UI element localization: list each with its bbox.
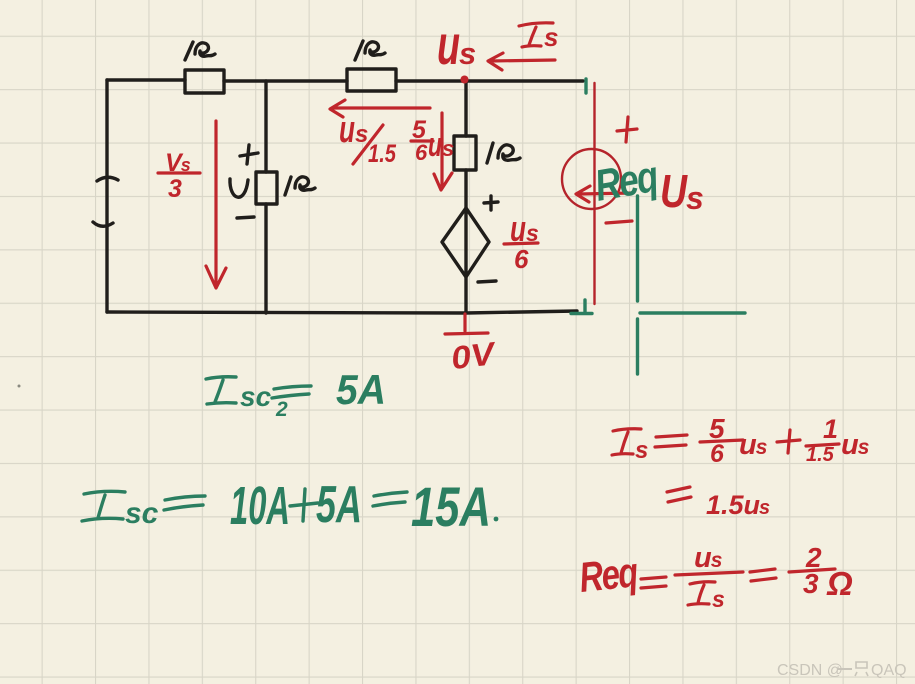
stray dot left margin [18,385,21,388]
equation Is = 5/6 us + 1/1.5 us [612,413,869,468]
svg-text:6: 6 [514,244,529,274]
svg-text:s: s [459,36,476,71]
arrow down current 5/6us [434,113,452,190]
svg-text:Req: Req [577,548,640,601]
polarity plus red [617,117,637,142]
svg-text:5A: 5A [336,366,386,413]
wire top (R1 to middle junction to R2) [224,79,347,82]
label 5/6 us coefficient [411,116,454,165]
label R2 value 1ohm [355,41,385,60]
resistor R1 box [185,70,224,93]
svg-text:Ω: Ω [826,565,853,602]
wire bottom [107,311,577,313]
wire middle branch upper [264,81,267,172]
polarity plus of dependent source [484,196,498,210]
ground lead red [463,314,466,331]
node Us dot [461,76,469,84]
svg-text:U: U [660,165,688,217]
svg-text:1.5: 1.5 [806,444,835,466]
ground bar red [445,333,488,334]
green measure line vertical lower [636,319,639,374]
svg-text:10A: 10A [230,476,290,536]
svg-text:u: u [437,13,460,76]
current label Is [519,23,553,47]
wire middle branch lower [264,204,267,313]
label Us/6 of dependent source [504,208,539,274]
polarity plus of U [240,145,258,164]
wire top (R2 to node Us and right end) [396,79,583,82]
green tick bottom right terminal [571,300,592,314]
resistor R4 box (vertical) [454,136,476,170]
equation Isc2 = 5A [206,366,386,421]
svg-text:3: 3 [168,175,182,203]
svg-text:u: u [339,109,355,151]
svg-text:1.5: 1.5 [368,140,397,168]
svg-text:5A: 5A [316,476,362,534]
svg-text:s: s [686,180,704,216]
svg-text:s: s [635,437,648,464]
green measure line horizontal [640,311,745,314]
equation = 1.5us [667,487,770,520]
svg-text:6: 6 [415,140,428,165]
label R3 value 1ohm [285,177,315,195]
label R1 value 1ohm [185,42,215,60]
svg-text:15A: 15A [411,475,491,538]
arrow for Is (points left) [488,53,555,70]
arrow us/1.5 (points left) [330,100,430,117]
svg-text:sc: sc [125,497,159,530]
label Req green [591,152,661,211]
arrow inside circle (points left) [576,186,632,202]
polarity minus of dependent source [478,281,496,282]
polarity minus red [606,221,632,223]
arrow down Vs/3 (left mesh) [206,121,226,288]
svg-text:s: s [355,121,368,148]
svg-text:QAQ: QAQ [871,662,907,679]
green measure line vertical upper [636,196,639,301]
svg-text:1: 1 [823,414,838,444]
equation Isc = 10A + 5A = 15A [82,475,498,538]
wire top (left segment to R1) [107,78,185,81]
svg-text:0V: 0V [449,335,499,376]
resistor R2 box [347,69,396,91]
svg-text:2: 2 [275,398,288,421]
label R4 value 1ohm [487,143,520,163]
wire left vertical [105,80,108,312]
polarity minus of U [237,217,254,218]
wire branch Us node upper [464,81,467,136]
port mark arc upper on left wire [97,177,118,181]
source circle Req port [562,149,621,209]
green tick top right terminal [584,79,587,93]
svg-text:3: 3 [803,568,819,599]
resistor R3 box (vertical) [256,172,277,204]
equation Req = Us/Is = 2/3 ohm [577,542,853,612]
label Vs/3 [158,149,200,203]
dependent source diamond [442,208,489,277]
wire between R4 and dependent source [464,170,467,208]
label us/1.5 [339,109,397,168]
svg-text:s: s [442,136,454,161]
label U [230,179,248,197]
svg-text:u: u [428,126,442,164]
svg-text:s: s [544,22,558,52]
wire dependent source to bottom [464,277,467,313]
svg-text:CSDN @: CSDN @ [777,662,843,679]
port mark arc lower on left wire [93,222,113,226]
red source line right branch [593,83,595,304]
svg-text:6: 6 [710,440,725,468]
svg-text:sc: sc [240,381,272,412]
svg-text:s: s [712,586,725,612]
